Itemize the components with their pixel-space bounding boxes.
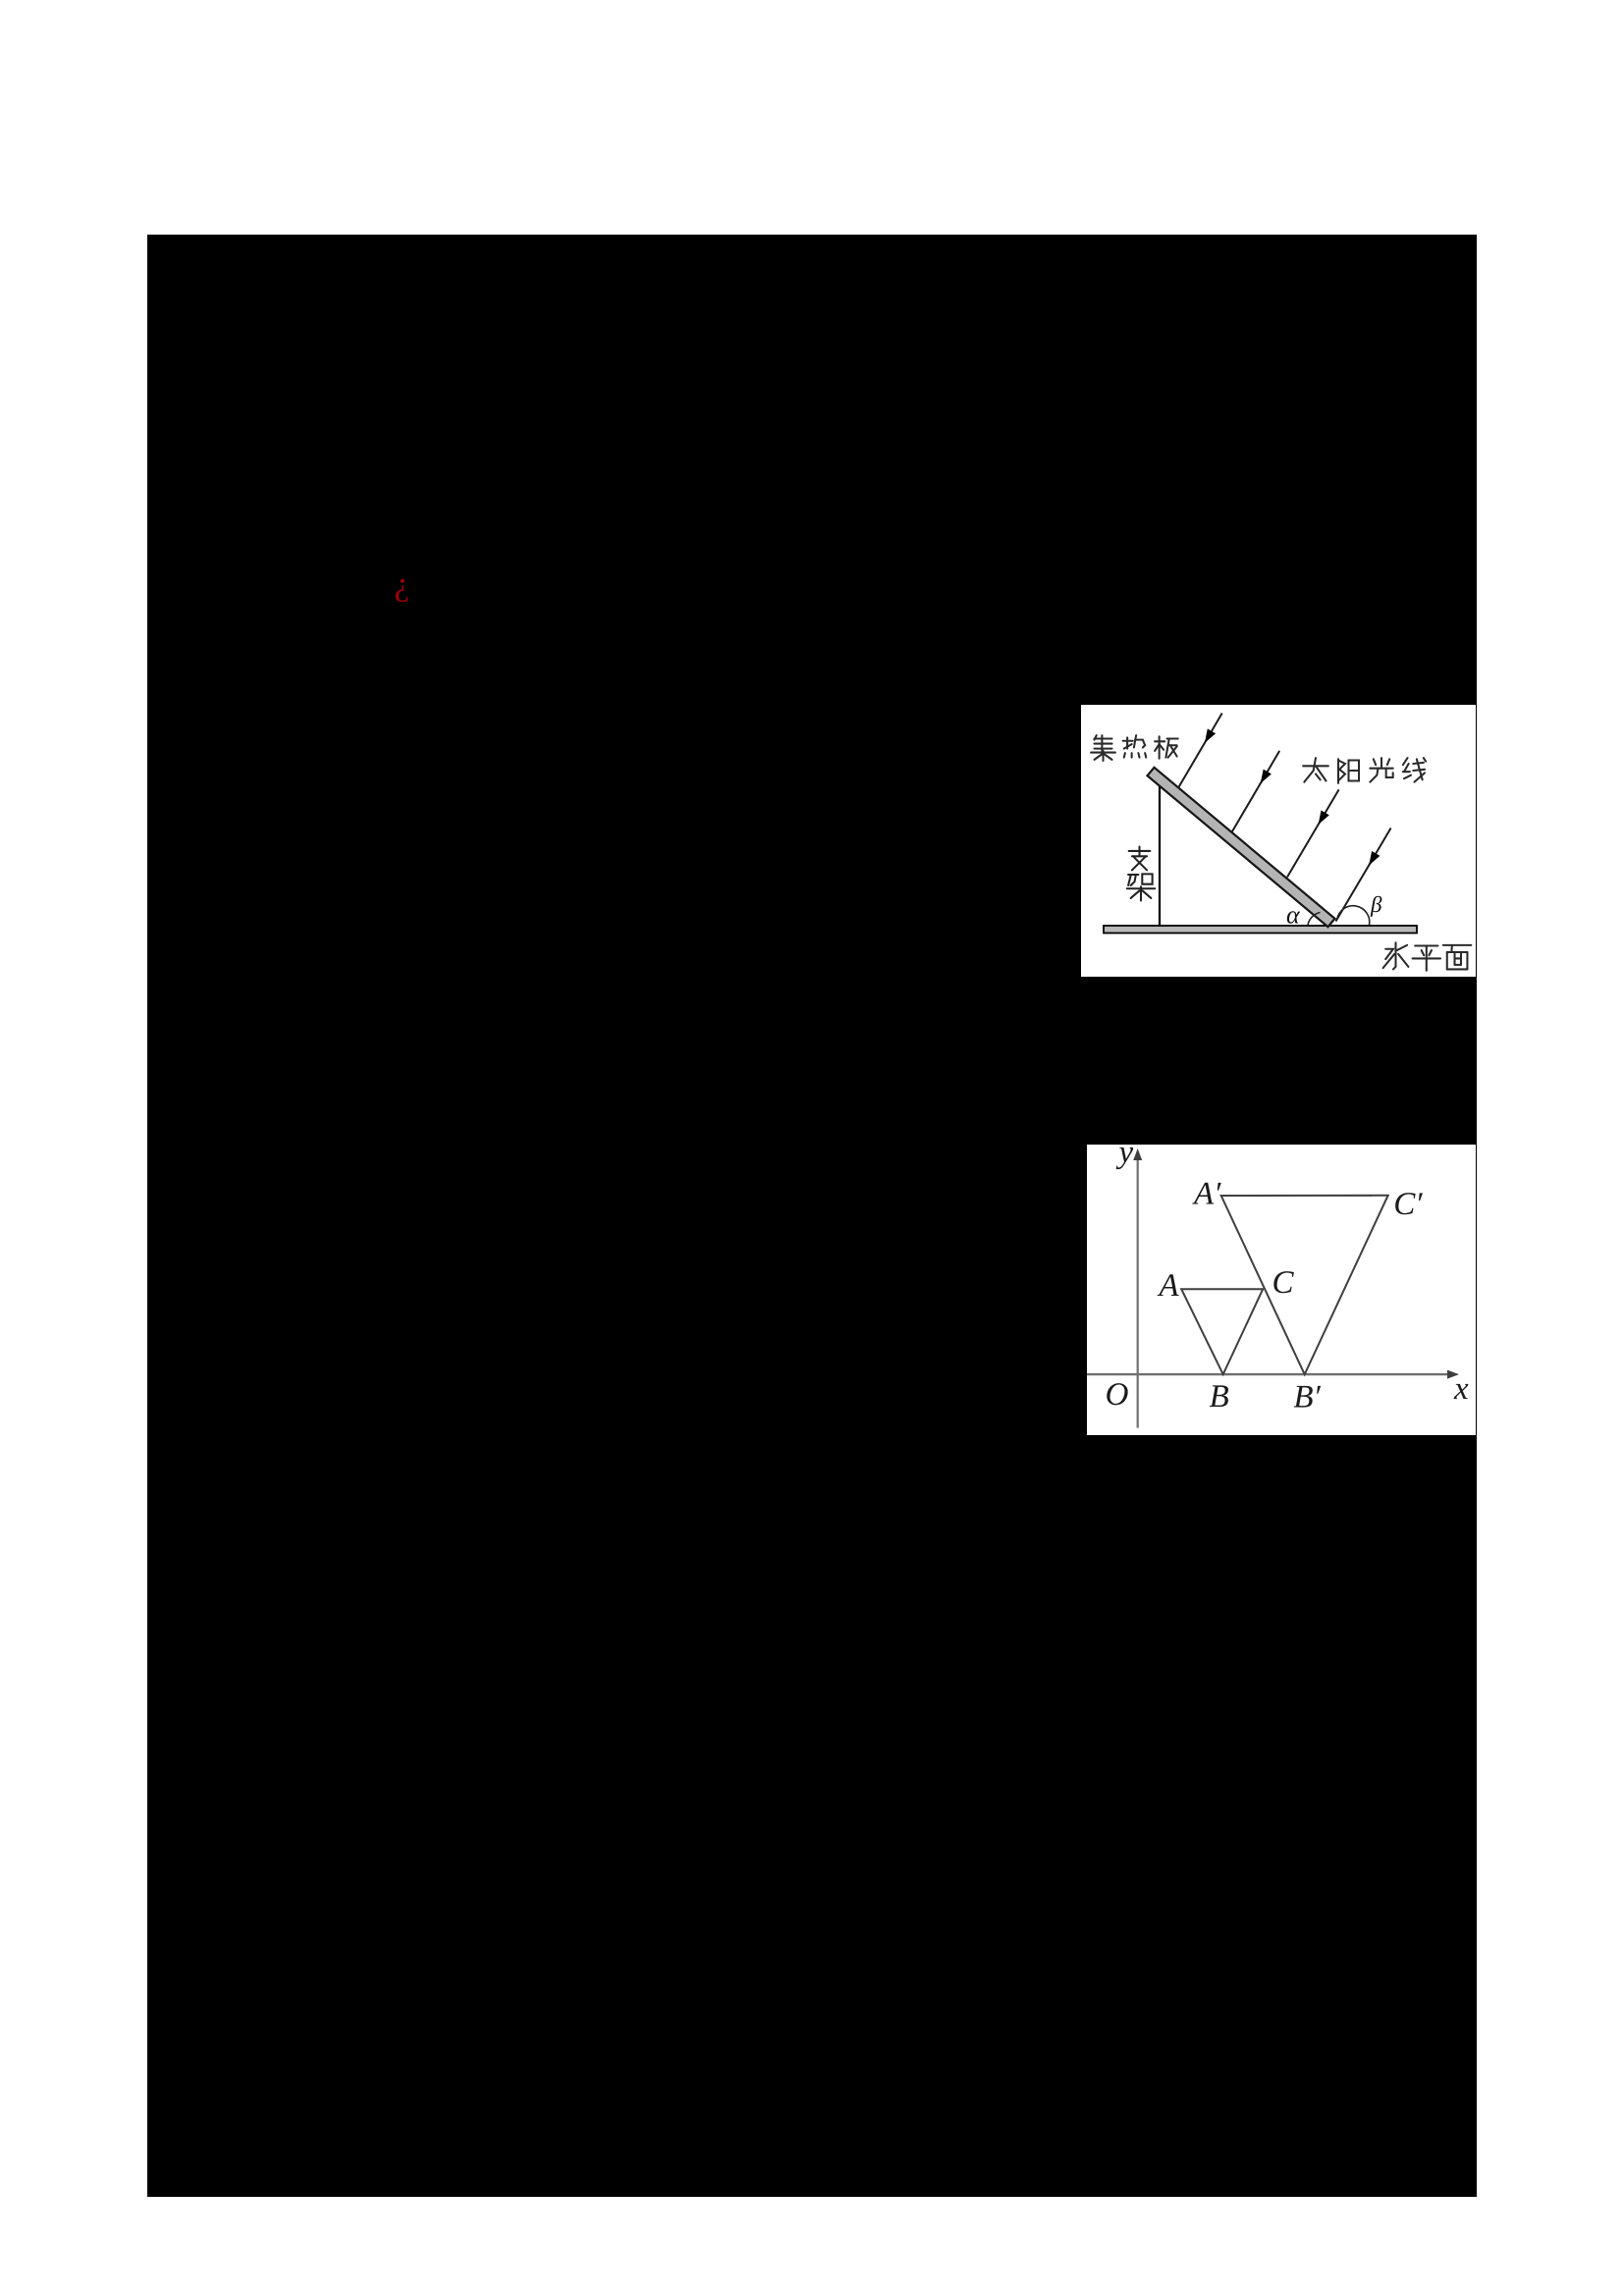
figure 1 white panel [1081,705,1476,977]
angle beta arc [1337,906,1370,926]
support line (bracket) [1159,786,1161,926]
sun ray 2 [1232,751,1280,832]
x axis [1087,1373,1452,1375]
sun ray 4 arrowhead [1369,851,1380,866]
y axis [1137,1154,1139,1428]
label char 太 [1303,758,1328,782]
label C [1273,1271,1293,1293]
label char 阳 [1338,759,1359,783]
label: support char jia [1127,874,1155,900]
label char 水 [1383,942,1409,969]
label B' [1294,1386,1313,1408]
angle label beta [1371,896,1382,917]
ground bar (horizontal plane) [1104,926,1417,934]
label A' [1192,1183,1214,1204]
y axis arrowhead [1133,1148,1142,1160]
label char 平 [1413,946,1440,971]
figure 1: solar collector diagram [1081,705,1476,977]
sun ray 1 [1178,714,1222,788]
angle alpha arc [1308,913,1321,926]
figure 2 white panel [1087,1145,1476,1435]
angle label alpha [1287,911,1300,924]
label char 光 [1370,758,1392,782]
triangle ABC [1181,1289,1263,1374]
label O [1107,1383,1127,1405]
label char 热 [1123,735,1147,758]
collector panel bar [1148,768,1335,927]
label char 线 [1403,758,1426,782]
red inverted question mark (equation placeholder) [388,564,417,614]
label x [1454,1384,1469,1399]
x axis arrowhead [1447,1370,1459,1379]
sun ray 3 arrowhead [1319,811,1329,826]
sun ray 3 [1287,789,1339,877]
label char 板 [1155,736,1178,759]
sun ray 2 arrowhead [1261,770,1272,784]
label C' [1395,1193,1415,1214]
label y [1116,1148,1133,1169]
label: support char zhi [1129,847,1151,871]
label char 面 [1443,945,1471,970]
sun ray 1 arrowhead [1205,728,1216,743]
figure 2: coordinate plane with triangles [1087,1145,1476,1435]
black redaction block [147,235,1477,2197]
label B [1210,1385,1228,1407]
label char 集 [1091,735,1115,761]
label A [1158,1274,1179,1296]
triangle A'B'C' [1221,1196,1388,1374]
sun ray 4 [1336,828,1391,922]
